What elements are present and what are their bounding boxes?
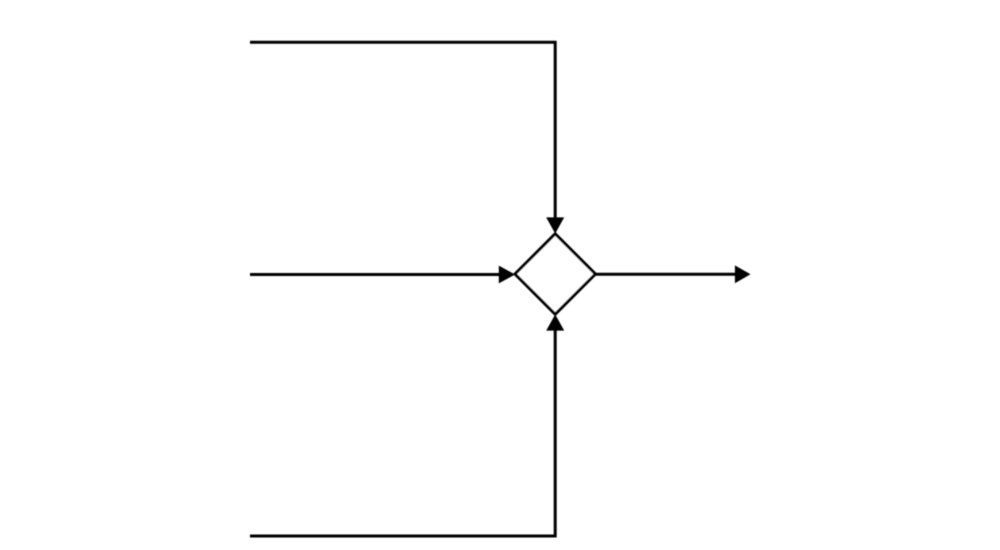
wire bottom input (elbow from left to diamond bottom) (250, 314, 564, 536)
node diamond junction (515, 234, 595, 314)
wire top input (elbow from left to diamond top) (250, 42, 564, 233)
wire output (diamond right vertex to right arrow) (595, 265, 750, 283)
wire middle input (left to diamond left vertex) (250, 266, 515, 284)
